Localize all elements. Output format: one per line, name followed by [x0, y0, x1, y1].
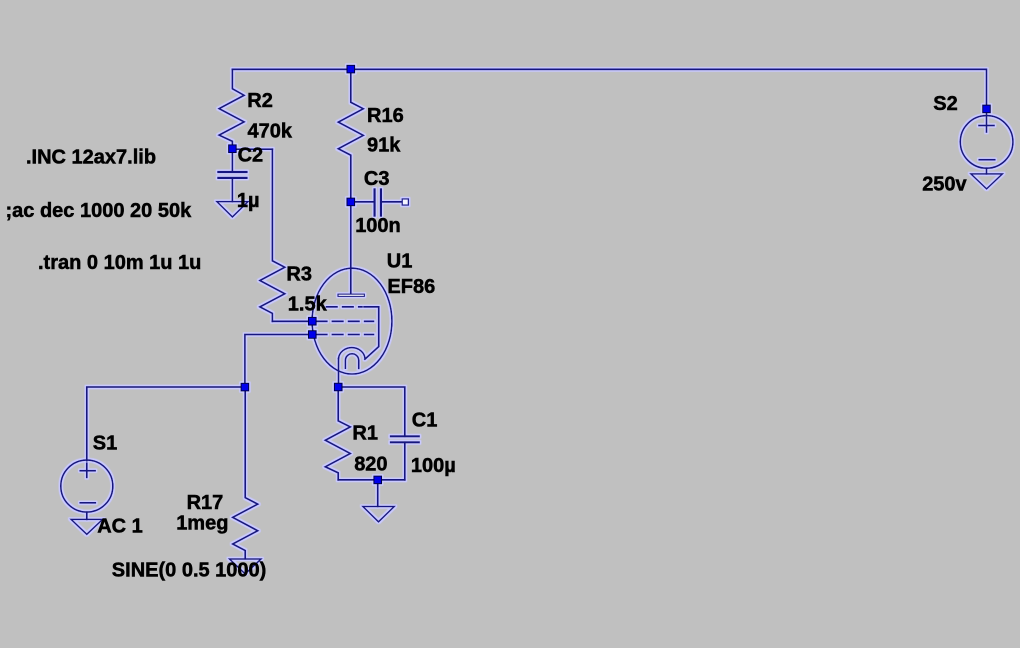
node junction R1/C1 bottom	[374, 476, 382, 484]
svg-text:S1: S1	[93, 432, 117, 454]
svg-text:.tran 0 10m 1u 1u: .tran 0 10m 1u 1u	[38, 252, 201, 274]
node junction g2	[309, 317, 317, 325]
svg-text:1µ: 1µ	[237, 190, 260, 212]
svg-text:470k: 470k	[248, 121, 293, 143]
wire cathode lead	[338, 359, 340, 388]
resistor R3	[260, 149, 285, 321]
node junction R16 top	[347, 65, 355, 73]
node junction input	[241, 383, 249, 391]
U1 plate bar	[338, 294, 364, 296]
resistor R16	[338, 69, 363, 202]
svg-text:R2: R2	[247, 90, 273, 112]
svg-text:S2: S2	[933, 93, 957, 115]
voltage source S2	[960, 116, 1013, 174]
svg-text:C2: C2	[238, 144, 264, 166]
node junction R2/C2	[229, 145, 237, 153]
svg-text:SINE(0 0.5 1000): SINE(0 0.5 1000)	[112, 560, 267, 582]
svg-text:1.5k: 1.5k	[288, 294, 328, 316]
svg-text:.INC 12ax7.lib: .INC 12ax7.lib	[26, 147, 156, 169]
svg-text:R3: R3	[286, 263, 312, 285]
resistor R17	[233, 387, 258, 559]
node C3 open pin	[402, 199, 408, 205]
ground under R17	[230, 559, 262, 574]
wire C2 top to R3 top	[232, 148, 272, 150]
U1 grid g1 dashed	[316, 334, 373, 336]
wire anode drop	[350, 202, 352, 294]
svg-text:100µ: 100µ	[411, 455, 456, 477]
voltage source S1	[61, 460, 113, 519]
svg-text:250v: 250v	[922, 174, 967, 196]
svg-text:91k: 91k	[367, 134, 401, 156]
svg-text:;ac dec 1000 20 50k: ;ac dec 1000 20 50k	[6, 200, 193, 222]
capacitor C3	[351, 189, 402, 215]
U1 cathode outer arc	[339, 348, 366, 359]
node junction cathode	[334, 383, 342, 391]
resistor R2	[219, 69, 244, 149]
wire bottom R1-C1	[338, 479, 405, 481]
U1 grid g2 dashed	[316, 320, 373, 322]
resistor R1	[325, 387, 350, 480]
svg-text:C1: C1	[412, 409, 438, 431]
capacitor C2	[218, 149, 246, 201]
node junction R16/C3	[347, 198, 355, 206]
ground under C2	[217, 202, 248, 217]
svg-text:R1: R1	[352, 423, 378, 445]
wire cathode node to C1	[338, 387, 405, 436]
svg-text:C3: C3	[364, 168, 390, 190]
svg-text:U1: U1	[387, 251, 413, 273]
tube U1 pentode envelope	[312, 268, 392, 374]
capacitor C1	[391, 436, 419, 480]
wire input node to S1	[87, 387, 245, 461]
svg-text:R16: R16	[367, 105, 404, 127]
U1 cathode inner hook	[345, 354, 358, 369]
ground under S2	[971, 174, 1003, 189]
wire ground stem	[377, 480, 379, 507]
svg-text:1meg: 1meg	[176, 513, 228, 535]
U1 grid g3 dashed	[327, 306, 363, 308]
ground under S1	[71, 519, 103, 534]
wire top rail	[232, 69, 986, 132]
svg-text:EF86: EF86	[387, 276, 435, 298]
svg-text:AC 1: AC 1	[97, 516, 143, 538]
node junction S2 top	[983, 105, 991, 113]
svg-text:R17: R17	[187, 492, 224, 514]
node junction g1	[309, 331, 317, 339]
wire input node to grid g1	[245, 335, 312, 388]
U1 g3 to cathode bracket	[364, 307, 379, 359]
svg-text:820: 820	[354, 453, 387, 475]
svg-text:100n: 100n	[355, 215, 401, 237]
wire R3 to grid g2	[272, 320, 312, 322]
ground under R1/C1	[363, 507, 394, 522]
